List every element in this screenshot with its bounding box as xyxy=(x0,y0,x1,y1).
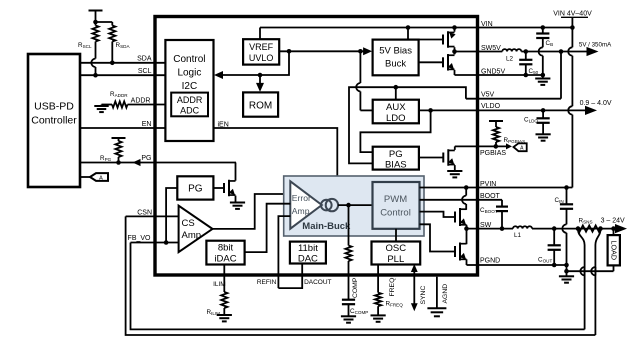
svg-text:Error: Error xyxy=(292,193,311,203)
junction VREF output to AUX LDO branch xyxy=(358,49,363,54)
svg-text:PVIN: PVIN xyxy=(480,181,496,188)
svg-text:iDAC: iDAC xyxy=(214,254,236,265)
ADDR ADC block xyxy=(171,93,208,117)
ground for RFREQ xyxy=(371,314,386,316)
resistor RFREQ xyxy=(375,293,381,307)
svg-text:3 – 24V: 3 – 24V xyxy=(601,218,625,225)
svg-text:V5V: V5V xyxy=(481,92,495,99)
svg-text:ILIM: ILIM xyxy=(213,281,226,288)
svg-text:CCOMP: CCOMP xyxy=(350,308,368,315)
wire EN net xyxy=(80,127,165,129)
inductor L1 xyxy=(513,226,532,228)
IC package outline U1 (main buck converter IC) xyxy=(155,17,478,276)
svg-text:PG: PG xyxy=(188,184,203,195)
LOAD box xyxy=(613,229,615,236)
junction CBOOT to SW line xyxy=(500,226,505,231)
external strap wire REFIN to DACOUT xyxy=(278,264,302,289)
svg-text:RSDA: RSDA xyxy=(116,42,131,49)
junction CIN PGND xyxy=(564,263,569,268)
junction load return xyxy=(564,269,569,274)
wire SCL net xyxy=(80,74,165,76)
arrowhead 5V output xyxy=(587,47,599,56)
svg-text:OSC: OSC xyxy=(386,243,407,254)
wire load return line xyxy=(567,270,614,272)
junction RSCL to SCL line xyxy=(93,73,98,78)
svg-text:RFREQ: RFREQ xyxy=(386,301,404,308)
wire SDA net xyxy=(80,62,165,64)
wire PWM Control to OSC PLL xyxy=(395,229,397,242)
wire Q4 source to ground xyxy=(235,196,237,203)
wire VREF UVLO top to VIN line xyxy=(259,28,261,40)
wire PGND net inside xyxy=(467,264,478,266)
wire Q5 source to SW node xyxy=(466,225,468,229)
wire COMP compensation branch xyxy=(348,205,350,245)
junction SW5V node xyxy=(452,49,457,54)
junction SW node xyxy=(464,226,469,231)
junction AUX LDO top supply xyxy=(394,85,399,90)
ground for Q4 xyxy=(230,202,245,204)
svg-text:ADDR: ADDR xyxy=(177,95,203,105)
svg-text:0.9 – 4.0V: 0.9 – 4.0V xyxy=(580,100,612,107)
arrowhead PGBIAS to net flag A xyxy=(506,143,512,149)
junction GND5V to ground xyxy=(541,73,546,78)
svg-text:SDA: SDA xyxy=(137,56,152,63)
junction C50 top xyxy=(524,49,529,54)
wire PGND external xyxy=(478,264,567,266)
Control Logic I2C block xyxy=(165,40,213,141)
svg-text:RADDR: RADDR xyxy=(110,91,128,98)
wire CIN bottom to PGND with hop over VOUT line xyxy=(562,224,566,232)
svg-text:PWM: PWM xyxy=(384,194,407,205)
supply rail bar for pull-up resistors RSCL RSDA xyxy=(89,10,103,12)
wire iEN from Control Logic to Main-Buck PWM xyxy=(214,128,373,193)
resistor RSCL xyxy=(95,22,97,26)
svg-text:Amp: Amp xyxy=(292,206,310,216)
wire FB_VO to PG block input xyxy=(166,188,177,243)
svg-text:UVLO: UVLO xyxy=(249,53,274,63)
wire REFIN to Error Amp input xyxy=(278,216,290,288)
junction V5V branch on 5V output xyxy=(559,49,564,54)
wire VIN top rail inside IC xyxy=(260,27,572,29)
outer loop right riser to RSNS right terminal with hop over load return xyxy=(594,267,596,335)
svg-text:RPG: RPG xyxy=(100,155,112,162)
wire AGND net xyxy=(436,277,438,309)
capacitor COUT xyxy=(553,229,555,246)
capacitor CIN xyxy=(566,188,568,205)
transistor Q5 high-side power FET xyxy=(420,212,456,217)
resistor RSNS current sense xyxy=(578,226,601,232)
resistor RADDR xyxy=(112,101,128,107)
svg-text:PGBIAS: PGBIAS xyxy=(480,150,506,157)
wire FB_VO net xyxy=(131,242,179,244)
svg-text:CSN: CSN xyxy=(137,210,152,217)
arrowhead VOUT output xyxy=(615,224,627,233)
junction VIN to 5V Bias Buck xyxy=(406,25,411,30)
svg-text:BIAS: BIAS xyxy=(385,159,407,170)
resistor RPG pull-up xyxy=(115,141,121,157)
svg-text:COMP: COMP xyxy=(352,277,359,298)
wire PG BIAS output to Q3 gate xyxy=(419,157,443,159)
svg-text:USB-PD: USB-PD xyxy=(34,101,74,113)
svg-text:VIN 4V–40V: VIN 4V–40V xyxy=(553,11,592,18)
wire PG net xyxy=(80,162,236,164)
wire Q6 drain to SW node xyxy=(466,229,468,245)
supply rail bar for RPG xyxy=(112,137,126,139)
svg-text:SYNC: SYNC xyxy=(420,286,427,305)
svg-text:ADC: ADC xyxy=(180,106,200,116)
8bit iDAC block xyxy=(206,241,244,265)
junction COUT top xyxy=(552,226,557,231)
wire VREF branch down to control logic and ROM xyxy=(223,51,290,75)
resistor RILIM xyxy=(221,292,227,308)
wire VIN rail down to PVIN with hops over 5V and VLDO lines xyxy=(571,28,573,48)
transistor Q6 low-side power FET xyxy=(420,224,456,251)
wire RSCL lead hopping over SDA line to SCL xyxy=(95,42,97,59)
junction VLDO branch down to PG BIAS xyxy=(428,108,433,113)
capacitor CB input bypass xyxy=(541,25,546,30)
outer feedback loop wire CSN xyxy=(126,216,596,335)
svg-text:BOOT: BOOT xyxy=(480,193,501,200)
junction VIN rail on VIN line xyxy=(570,25,575,30)
svg-text:ADDR: ADDR xyxy=(131,98,151,105)
wire GND5V net inside xyxy=(455,74,543,76)
wire CSN net from sense loop to CS Amp xyxy=(126,215,179,217)
ground for AGND xyxy=(427,307,446,309)
arrowhead into Control Logic xyxy=(214,71,223,79)
wire down to ROM xyxy=(259,75,261,84)
svg-text:DAC: DAC xyxy=(298,253,318,264)
wire LOAD bottom to return xyxy=(613,265,615,271)
capacitor CCOMP xyxy=(342,299,355,301)
OSC PLL block xyxy=(372,242,421,265)
wire 5V output after L2 xyxy=(521,51,587,53)
transistor Q3 PGBIAS FET xyxy=(442,153,444,163)
junction RSDA to SDA line xyxy=(110,61,115,66)
wire PVIN net from PWM Control to pin xyxy=(420,187,478,189)
wire Q1 source to SW5V node xyxy=(454,47,456,51)
SYNC bidirectional arrow xyxy=(413,272,415,305)
capacitor CLDO xyxy=(542,110,544,118)
ground for CLDO xyxy=(536,133,551,135)
svg-text:SW5V: SW5V xyxy=(481,45,501,52)
wire PGND to load return junction xyxy=(566,265,568,271)
wire Q3 drain to PGBIAS line xyxy=(454,146,456,150)
wire V5V net xyxy=(466,98,561,100)
svg-text:RSNS: RSNS xyxy=(579,218,593,225)
wire supply to RSDA top xyxy=(96,21,113,23)
ground for 5V bias buck xyxy=(542,75,544,79)
wire CB bottom to GND5V with hop over 5V line xyxy=(542,38,544,47)
wire ADDR net to ADDR ADC xyxy=(128,104,172,106)
svg-text:COUT: COUT xyxy=(538,257,552,264)
junction ROM branch xyxy=(258,73,263,78)
wire VREF output xyxy=(279,50,364,52)
svg-text:I2C: I2C xyxy=(182,81,198,92)
wire BOOT net xyxy=(420,199,478,201)
wire VIN input rail xyxy=(571,17,573,27)
wire Q4 drain to PG line xyxy=(235,163,237,181)
junction COUT bottom on PGND xyxy=(552,263,557,268)
svg-text:VREF: VREF xyxy=(249,42,274,52)
svg-text:FB_VO: FB_VO xyxy=(128,235,152,242)
ground for CCOMP xyxy=(341,315,356,317)
junction RPG to PG line xyxy=(116,160,121,165)
svg-text:AUX: AUX xyxy=(386,102,406,113)
svg-text:PLL: PLL xyxy=(387,254,404,265)
wire 8bit iDAC to Error Amp input xyxy=(245,204,291,252)
junction LOAD top tap xyxy=(611,226,616,231)
op-amp CS Amp current sense amplifier xyxy=(179,206,213,252)
wire ground to RADDR xyxy=(102,104,113,106)
junction RSNS right sense tap xyxy=(598,226,603,231)
svg-text:GND5V: GND5V xyxy=(481,69,505,76)
inductor L2 xyxy=(502,49,521,51)
ground for RILIM xyxy=(217,314,232,316)
capacitor C50 xyxy=(525,52,527,60)
wire SW output to inductor L1 xyxy=(467,228,514,230)
wire VIN branch to 5V Bias Buck top xyxy=(407,28,409,40)
USB-PD Controller block xyxy=(28,54,80,187)
arrowhead into 5V Bias Buck xyxy=(363,47,372,55)
5V Bias Buck block xyxy=(373,40,419,76)
junction VREF output to control logic branch xyxy=(287,49,292,54)
net flag A at PGBIAS xyxy=(514,143,527,151)
ground for RADDR xyxy=(94,105,108,107)
junction CIN branch on PVIN xyxy=(564,185,569,190)
wire SW5V net to inductor xyxy=(455,51,503,53)
svg-text:CBOOT: CBOOT xyxy=(480,207,498,214)
wire Q3 source to ground xyxy=(454,165,456,171)
wire Q2 drain to SW5V node xyxy=(454,52,456,55)
gm stage circle pair of Error Amp xyxy=(321,200,332,211)
ground for Q3 xyxy=(447,170,462,172)
svg-text:DACOUT: DACOUT xyxy=(304,279,331,286)
resistor RPGBIAS pull-up xyxy=(493,127,499,142)
svg-text:11bit: 11bit xyxy=(298,243,318,254)
11bit DAC block xyxy=(290,242,326,264)
junction FB_VO branch to PG comparator xyxy=(164,240,169,245)
arrowhead VLDO output xyxy=(585,106,597,115)
PWM Control block xyxy=(373,182,420,229)
svg-text:CLDO: CLDO xyxy=(524,116,538,123)
svg-text:PG: PG xyxy=(389,149,403,160)
inner loop right riser to RSNS left terminal with hop over load return xyxy=(584,267,586,329)
resistor internal comp xyxy=(345,246,351,262)
svg-text:CS: CS xyxy=(182,218,195,229)
junction CLDO top xyxy=(541,108,546,113)
svg-text:CB: CB xyxy=(546,40,554,47)
wire Error Amp output to PWM Control xyxy=(338,204,372,206)
svg-text:C50: C50 xyxy=(529,68,539,75)
svg-text:Control: Control xyxy=(173,54,205,65)
capacitor CBOOT xyxy=(501,200,503,207)
arrowhead into ROM xyxy=(256,83,264,92)
junction COMP branch xyxy=(346,203,351,208)
VREF UVLO block xyxy=(243,39,279,64)
wire RSDA lead to SDA line xyxy=(111,42,113,63)
wire V5V riser to 5V output xyxy=(560,52,562,99)
wire VREF to AUX LDO input with hop over V5V line xyxy=(359,51,361,83)
svg-text:L2: L2 xyxy=(506,56,514,63)
svg-text:ROM: ROM xyxy=(249,100,272,111)
svg-text:LDO: LDO xyxy=(386,113,406,124)
svg-text:VLDO: VLDO xyxy=(481,103,501,110)
junction node at pull-up supply xyxy=(93,20,98,25)
wire FREQ net xyxy=(377,265,379,293)
svg-text:LOAD: LOAD xyxy=(609,241,618,261)
ROM block xyxy=(243,92,278,116)
op-amp U2 Error Amp xyxy=(290,181,322,228)
svg-text:EN: EN xyxy=(142,121,152,128)
Main-Buck shaded block xyxy=(284,176,424,236)
AUX LDO block xyxy=(373,100,419,124)
junction C50 bottom on GND5V xyxy=(524,73,529,78)
svg-text:8bit: 8bit xyxy=(218,243,234,254)
wire CS Amp output to Error Amp xyxy=(213,194,291,229)
net flag A at USB-PD controller xyxy=(80,176,90,178)
supply bar for RPGBIAS xyxy=(489,120,503,122)
PG comparator block xyxy=(177,176,213,199)
svg-text:A: A xyxy=(99,176,103,182)
inner feedback loop wire FB_VO xyxy=(131,243,585,330)
svg-text:PGND: PGND xyxy=(480,258,500,265)
junction RPGBIAS to PGBIAS line xyxy=(494,144,499,149)
wire internal V5V distribution xyxy=(349,87,466,163)
transistor Q2 5V buck low-side FET xyxy=(419,61,443,63)
svg-text:RSCL: RSCL xyxy=(78,42,92,49)
svg-text:CIN: CIN xyxy=(555,197,564,204)
svg-text:L1: L1 xyxy=(514,232,522,239)
svg-text:Amp: Amp xyxy=(182,230,202,241)
wire PGBIAS net xyxy=(455,145,478,147)
transistor Q1 5V buck high-side FET xyxy=(419,39,443,41)
wire Q6 source to PGND xyxy=(466,259,468,265)
svg-text:Logic: Logic xyxy=(177,68,201,79)
svg-text:Buck: Buck xyxy=(385,59,406,70)
wire PVIN down to Q5 drain with hop over BOOT line xyxy=(465,188,467,196)
junction RSNS left sense tap xyxy=(576,226,581,231)
svg-text:Controller: Controller xyxy=(31,115,77,127)
transistor Q4 PG open-drain FET xyxy=(223,183,225,193)
wire ILIM net xyxy=(223,265,225,293)
svg-text:REFIN: REFIN xyxy=(257,279,277,286)
svg-text:SCL: SCL xyxy=(138,68,152,75)
wire PG block output to Q4 gate xyxy=(213,187,224,189)
wire Q2 source to GND5V xyxy=(454,70,456,75)
PG BIAS block xyxy=(373,147,419,170)
junction Q1 drain on VIN line xyxy=(452,25,457,30)
svg-text:FREQ: FREQ xyxy=(389,278,396,297)
arrowhead on PG line pointing to USB-PD controller xyxy=(133,159,141,166)
ground for power stage xyxy=(566,271,568,276)
svg-text:Control: Control xyxy=(380,208,411,219)
svg-text:5V Bias: 5V Bias xyxy=(379,46,412,57)
wire Q1 drain to VIN xyxy=(454,28,456,32)
wire VLDO to PG BIAS upper input xyxy=(360,110,430,152)
svg-text:Main-Buck: Main-Buck xyxy=(302,221,351,232)
resistor RSDA xyxy=(109,26,115,42)
svg-text:VIN: VIN xyxy=(481,21,493,28)
svg-text:5V / 350mA: 5V / 350mA xyxy=(579,42,612,49)
wire VOUT line after L1 xyxy=(532,228,616,230)
wire VLDO output net xyxy=(419,109,478,111)
svg-text:AGND: AGND xyxy=(442,284,449,304)
junction PVIN branch to power stage xyxy=(464,185,469,190)
svg-text:PG: PG xyxy=(141,155,151,162)
